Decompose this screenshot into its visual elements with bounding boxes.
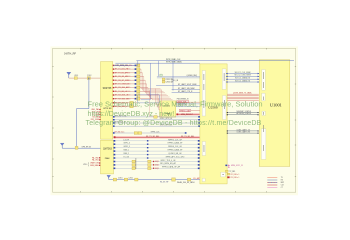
U2500 pin strip text marks (204, 73, 225, 175)
svg-text:TX_ON: TX_ON (123, 157, 129, 159)
wire WTR SSBI bus lower (115, 61, 199, 64)
svg-text:MIPI: MIPI (281, 182, 285, 184)
U2900 left pin labels (83, 157, 100, 168)
svg-text:https://DeviceDB.xyz - new!: https://DeviceDB.xyz - new! (88, 110, 175, 118)
svg-text:GPS_RF_IN: GPS_RF_IN (82, 147, 92, 149)
wire U2401 to U2500 a (176, 103, 200, 105)
RF PA module U2900 block (101, 140, 114, 174)
IC U2800 RF transceiver block (101, 62, 113, 140)
wire U2401 to U2500 b (176, 106, 200, 108)
sheet frame (53, 48, 296, 192)
svg-text:WL_BT_RF: WL_BT_RF (160, 182, 168, 184)
svg-text:RF_TX_B8_LB: RF_TX_B8_LB (115, 91, 128, 93)
U2500 pin strips (202, 69, 226, 182)
net box VREG L13A (179, 109, 191, 112)
wire ANT diplexer drop (77, 78, 90, 147)
svg-text:SDR735: SDR735 (103, 88, 112, 90)
wire WTR SSBI bus upper (136, 59, 294, 61)
legend RX line (267, 180, 284, 182)
frame zone ticks (52, 48, 296, 192)
svg-text:C2802: C2802 (87, 75, 92, 77)
svg-text:C2901: C2901 (118, 178, 123, 180)
wire QLINK enable pair (157, 76, 200, 78)
U2900 control pin rows (114, 139, 200, 170)
svg-text:10K|1: 10K|1 (155, 161, 159, 163)
svg-text:10K|1: 10K|1 (155, 168, 159, 170)
svg-text:B34: B34 (127, 84, 130, 86)
svg-text:COEX_UART_RX: COEX_UART_RX (237, 131, 251, 134)
svg-text:0-8TH_RF: 0-8TH_RF (64, 51, 77, 55)
legend CLK line (267, 185, 284, 187)
antenna ANT3 (107, 175, 111, 179)
highlighted net MSM RESOUT (176, 113, 199, 116)
svg-text:RFFE6_CLK_GF: RFFE6_CLK_GF (168, 146, 183, 148)
capacitor C2820 (160, 74, 162, 76)
wire SSBI riser (113, 61, 138, 66)
wire RX loop outline (138, 95, 160, 103)
svg-text:RFFE4_DATA_GF_AP: RFFE4_DATA_GF_AP (162, 166, 181, 169)
U2500 right side coex pins (225, 165, 243, 179)
QLINK red bus (227, 94, 259, 100)
RF matrix vertical bus (141, 69, 173, 100)
svg-text:QLINK0_REQ: QLINK0_REQ (187, 75, 198, 77)
svg-text:PAM: PAM (105, 157, 110, 160)
wire MDM handshake pair 1 (227, 110, 259, 115)
U2800 transmit pin rows (113, 64, 153, 100)
wire ANT1 feed (69, 77, 101, 79)
svg-text:MSM_RESOUT: MSM_RESOUT (181, 114, 193, 116)
U1001 pin strip text marks (262, 72, 265, 151)
svg-text:SDCC2_CMD_MSM: SDCC2_CMD_MSM (234, 75, 251, 77)
resistor R2550 below U1001 (226, 170, 236, 173)
svg-text:R3 | 10K v 1: R3 | 10K v 1 (231, 177, 240, 179)
legend TX line (267, 177, 283, 179)
red feeder verticals (156, 89, 160, 110)
blue riser wires (141, 61, 173, 100)
svg-text:10K|1: 10K|1 (155, 165, 159, 167)
svg-text:Telegram Group: @DeviceDB - ht: Telegram Group: @DeviceDB - https://t.me… (86, 120, 262, 127)
IC U2401 block (160, 101, 176, 117)
filter FL2905 (187, 178, 190, 181)
wire GPS feed (62, 147, 100, 149)
inductor L2820 (75, 146, 78, 149)
svg-text:RFFE5_DATA_GF: RFFE5_DATA_GF (168, 142, 184, 145)
svg-text:GRFC_5: GRFC_5 (123, 146, 130, 148)
wire U2500 SDCC bus 1 (226, 72, 259, 75)
svg-text:RFFE_CLK: RFFE_CLK (151, 131, 161, 133)
svg-text:L2902: L2902 (129, 178, 133, 180)
watermark line 3 (86, 120, 262, 127)
svg-text:GRFC_3: GRFC_3 (123, 143, 130, 145)
svg-text:B30: B30 (127, 69, 130, 71)
label GPS LNA net (117, 64, 133, 67)
wire VREG feed stub (176, 102, 200, 110)
svg-text:QM7563: QM7563 (103, 148, 113, 150)
sheet name label (64, 51, 77, 55)
watermark line 1 (88, 100, 263, 109)
svg-text:TP_RF1: TP_RF1 (229, 171, 235, 173)
svg-text:SSBI_2: SSBI_2 (123, 153, 129, 155)
U2800 lower pin rows (113, 101, 137, 108)
svg-text:BT_UART_SOUT_MSM: BT_UART_SOUT_MSM (178, 83, 197, 86)
U2800 to U2500 control wires (113, 115, 200, 134)
antenna ANT2 GPS (60, 143, 64, 148)
wire QUP SE4 b (172, 87, 200, 90)
label QLINK enable (187, 75, 198, 77)
U2401 output labels (177, 99, 189, 107)
wire QUP SE4 c (172, 90, 200, 93)
IC U1001 block (259, 60, 290, 167)
crystal Y2801 group (162, 78, 179, 83)
svg-text:WTR_SSBI_DATA: WTR_SSBI_DATA (166, 61, 182, 64)
svg-text:RFFE5_CLK_GF: RFFE5_CLK_GF (168, 139, 183, 141)
svg-text:BT_UART_CTS_N: BT_UART_CTS_N (178, 90, 193, 93)
svg-text:B36: B36 (127, 91, 130, 93)
highlighted net TX path (114, 136, 200, 138)
inductor L2902 (124, 178, 127, 181)
svg-text:B37: B37 (127, 95, 130, 97)
svg-text:RFFE6_DATA_GF: RFFE6_DATA_GF (168, 149, 184, 152)
wire 2G4 antenna chain (109, 177, 200, 184)
wire QUP SE4 into U2500 (156, 83, 200, 86)
svg-text:RF1_PATH_EN_AP: RF1_PATH_EN_AP (160, 162, 177, 165)
svg-text:RFFE_APT_VCC_GF0: RFFE_APT_VCC_GF0 (166, 156, 184, 159)
antenna ANT1 (67, 72, 71, 78)
svg-text:BT_UART_SIN_MSM: BT_UART_SIN_MSM (178, 87, 195, 90)
svg-text:B31: B31 (127, 72, 130, 74)
wire U2500 SDCC bus 3 (226, 77, 259, 81)
svg-text:RF_PA_VCC: RF_PA_VCC (115, 130, 126, 133)
IC U2500 baseband block (200, 64, 227, 184)
wire MDM handshake pair 2 (227, 128, 259, 133)
red group outline (150, 90, 162, 117)
svg-text:WLAN_2G4_RF_PATH: WLAN_2G4_RF_PATH (177, 181, 195, 184)
svg-text:B33: B33 (127, 80, 130, 82)
svg-text:MSM_GPIO_35: MSM_GPIO_35 (231, 165, 243, 167)
svg-text:SSBI_1: SSBI_1 (123, 150, 129, 152)
svg-text:PA_ON1: PA_ON1 (92, 159, 99, 162)
svg-text:GSM_BIAS: GSM_BIAS (90, 164, 100, 167)
filter FL2903 (135, 178, 138, 181)
filter FL2802 (87, 75, 92, 79)
U1001 pin strips (261, 70, 266, 160)
QLINK bus labels (233, 92, 252, 95)
wire U2500 SDCC bus 2 (226, 75, 259, 78)
svg-text:XO_IN: XO_IN (173, 80, 179, 82)
svg-text:CT: CT (281, 187, 283, 189)
svg-text:Free Schematic, Service Manual: Free Schematic, Service Manual, Firmware… (88, 100, 263, 109)
svg-text:VREG_L13A: VREG_L13A (180, 109, 191, 112)
svg-text:B32: B32 (127, 76, 130, 78)
schematic sheet (50, 46, 298, 195)
svg-text:GRFC_TDD_0_GF: GRFC_TDD_0_GF (160, 160, 176, 162)
svg-text:QLINK_MDM_TX_DATA: QLINK_MDM_TX_DATA (233, 92, 252, 95)
svg-text:QLINK1_EN_GF: QLINK1_EN_GF (168, 153, 182, 155)
filter FL2801 (74, 75, 78, 79)
svg-text:WTR_SSBI_CLK: WTR_SSBI_CLK (166, 59, 181, 61)
svg-text:WL_ANT: WL_ANT (193, 177, 200, 180)
U2800 left pin labels (91, 108, 100, 121)
diplexer DP2904 (172, 178, 176, 181)
capacitor C2901 (113, 178, 116, 181)
svg-text:RF_TX_B1_SEL: RF_TX_B1_SEL (181, 136, 194, 138)
legend CTRL line (267, 187, 283, 189)
svg-text:SDCC2_DATA1_M: SDCC2_DATA1_M (235, 79, 251, 82)
svg-text:SDCC2_DATA0_M: SDCC2_DATA0_M (235, 77, 251, 80)
svg-text:R2 | 10K v 1: R2 | 10K v 1 (231, 174, 240, 176)
net box VREG S5A (177, 100, 189, 103)
wire U2500 SDCC bus 4 (226, 79, 259, 83)
legend MIPI line (267, 182, 284, 184)
svg-text:L2801: L2801 (74, 75, 78, 77)
svg-text:SDCC2_CLK_MSM: SDCC2_CLK_MSM (235, 72, 251, 74)
svg-text:AP2MDM_STATUS: AP2MDM_STATUS (237, 112, 252, 115)
svg-text:B35: B35 (127, 87, 130, 89)
U2800 left pin ticks (99, 109, 100, 120)
svg-text:U1001: U1001 (270, 103, 282, 108)
svg-text:1.8_RF: 1.8_RF (123, 139, 129, 141)
watermark line 2 (88, 110, 175, 118)
svg-text:RF_TX_B1_SEL: RF_TX_B1_SEL (146, 136, 159, 138)
